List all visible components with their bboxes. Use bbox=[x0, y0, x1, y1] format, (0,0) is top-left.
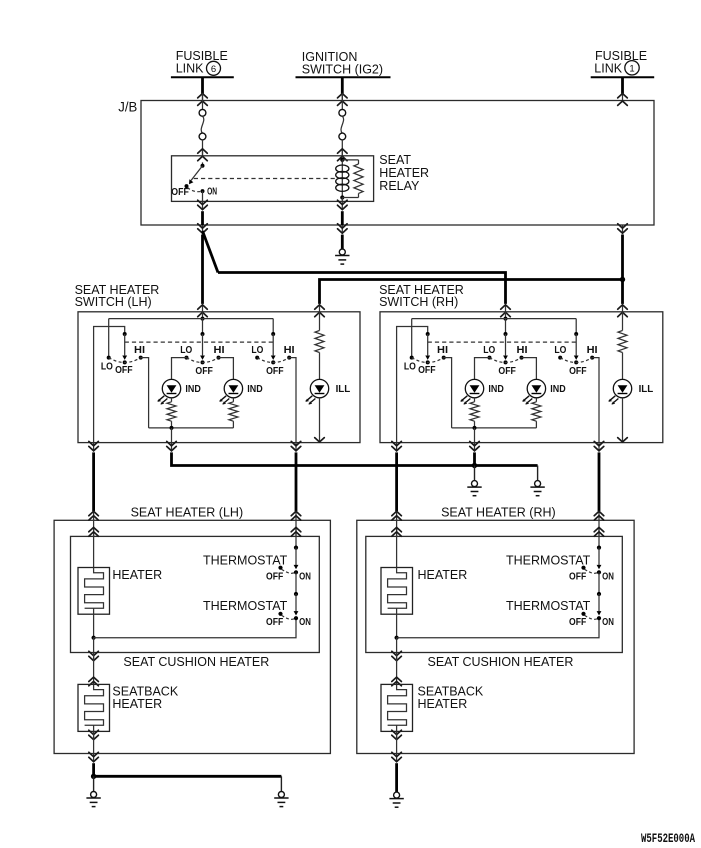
wire feed entry to bus (LH) bbox=[202, 312, 204, 319]
thermostat2 ON contact (RH) bbox=[597, 616, 601, 620]
relay switch wire to pivot bbox=[202, 162, 204, 165]
svg-text:OFF: OFF bbox=[569, 366, 587, 377]
svg-text:SWITCH (IG2): SWITCH (IG2) bbox=[302, 63, 383, 77]
wire junction to ground (left) bbox=[93, 776, 95, 791]
svg-text:HI: HI bbox=[134, 345, 145, 356]
wire junction to ground bbox=[474, 466, 476, 481]
wire ground bus right end down bbox=[280, 776, 282, 791]
svg-text:SEAT: SEAT bbox=[379, 153, 411, 167]
connector at seat heater box top, main (RH) bbox=[396, 511, 398, 521]
ganged switch dashed link (RH) bbox=[428, 341, 577, 343]
svg-text:THERMOSTAT: THERMOSTAT bbox=[203, 599, 288, 613]
switch cell3 OFF contact (LH) bbox=[271, 360, 275, 364]
wire FL1 junction down to switch RH ILL bbox=[621, 280, 624, 304]
ground bus LH bbox=[94, 775, 282, 778]
illumination lamp ILL (RH) bbox=[613, 379, 631, 397]
bus bar under IGNITION SWITCH (IG2) bbox=[296, 76, 391, 78]
switch cell3 travel dashed arc (RH) bbox=[560, 358, 592, 363]
connector at J/B top edge (IG2 wire) bbox=[341, 93, 343, 101]
seat cushion heater inner box (LH) bbox=[71, 536, 320, 652]
wire ground bus right end down bbox=[537, 466, 539, 481]
drop bus to cell2 pivot (LH) bbox=[202, 319, 204, 334]
switch cell1 arm (RH) bbox=[427, 334, 429, 355]
wire thermostat1 to thermostat2 (RH) bbox=[598, 572, 600, 594]
thermostat2 OFF contact (LH) bbox=[278, 612, 282, 616]
thermostat1 arm (LH) bbox=[295, 548, 297, 566]
wire relay output inside J/B bbox=[201, 211, 204, 225]
switch cell3 LO contact (RH) bbox=[558, 356, 562, 360]
connector at box bottom (HI output) (RH) bbox=[598, 443, 600, 452]
feed bus (LH) bbox=[109, 318, 274, 320]
svg-text:OFF: OFF bbox=[171, 187, 189, 198]
svg-text:IND: IND bbox=[247, 384, 262, 395]
wire FL1 from J/B down to ILL junction bbox=[621, 235, 624, 280]
switch cell3 OFF contact (RH) bbox=[574, 360, 578, 364]
switch cell1 output gamma wire (RH) bbox=[397, 327, 428, 443]
svg-text:LINK: LINK bbox=[594, 62, 622, 76]
connector at seat heater box top, HI (LH) bbox=[295, 511, 297, 521]
svg-text:ON: ON bbox=[207, 187, 217, 198]
relay switch pivot bbox=[201, 164, 205, 168]
wire from J/B to relay ground bbox=[341, 235, 344, 249]
wire main into cushion heater (LH) bbox=[93, 520, 95, 536]
connector at J/B bottom edge (relay output) bbox=[202, 225, 204, 234]
svg-text:OFF: OFF bbox=[498, 366, 516, 377]
wire node to thermostat chain (LH) bbox=[94, 618, 296, 638]
svg-text:ON: ON bbox=[602, 617, 614, 628]
svg-text:ILL: ILL bbox=[336, 384, 351, 395]
wire seatback heater to box bottom (RH) bbox=[396, 731, 398, 753]
svg-text:OFF: OFF bbox=[266, 617, 283, 628]
IND bus output node (RH) bbox=[473, 426, 477, 430]
indicator lamp IND2 (LH) bbox=[224, 379, 242, 397]
junction ILL feed / FL1 bbox=[620, 277, 625, 282]
seatback heater rectangle (LH) bbox=[78, 684, 110, 731]
wire from FUSIBLE LINK 6 bus to J/B bbox=[201, 77, 204, 93]
switch cell1 HI contact (RH) bbox=[442, 356, 446, 360]
connector at switch LH box top (main feed) bbox=[202, 305, 204, 313]
connector at relay box bottom edge (output) bbox=[202, 201, 204, 210]
heater element rectangle (RH) bbox=[381, 568, 413, 615]
switch cell2 OFF contact (LH) bbox=[201, 360, 205, 364]
switch cell2 HI contact (LH) bbox=[217, 356, 221, 360]
wire line A to seat heater switch RH bbox=[218, 273, 506, 304]
mechanical link dashed line relay coil to switch arm bbox=[194, 178, 337, 180]
resistor below IND1 (RH) bbox=[470, 402, 479, 421]
wire switch RH IND output to ground bus bbox=[473, 452, 476, 465]
wire IND1 to resistor (RH) bbox=[474, 398, 476, 402]
thermostat1 travel dashed arc (LH) bbox=[282, 569, 295, 573]
wire feed entry to bus (RH) bbox=[505, 312, 507, 319]
harness squiggle on FL6 feed bbox=[201, 116, 204, 133]
connector at seat heater box bottom (LH) bbox=[93, 754, 95, 763]
wire ILL to box bottom (LH) bbox=[319, 398, 321, 442]
svg-text:IND: IND bbox=[185, 384, 200, 395]
connector stub at box bottom (ILL return) (LH) bbox=[315, 438, 325, 442]
svg-text:6: 6 bbox=[211, 64, 216, 75]
switch cell3 HI contact (LH) bbox=[287, 356, 291, 360]
connector at J/B top edge (FL6 wire) bbox=[202, 93, 204, 101]
junction ground LH bbox=[91, 774, 96, 779]
connector at box bottom (HI output) (LH) bbox=[295, 443, 297, 452]
relay switch ON contact bbox=[201, 189, 205, 193]
connector at box bottom (main output) (RH) bbox=[396, 443, 398, 452]
svg-text:OFF: OFF bbox=[569, 617, 586, 628]
svg-text:LO: LO bbox=[404, 361, 416, 372]
wire node down to seatback heater (LH) bbox=[93, 638, 95, 653]
connector circle C1 on FL6 feed bbox=[199, 109, 206, 116]
svg-text:THERMOSTAT: THERMOSTAT bbox=[506, 553, 591, 567]
svg-text:SEAT CUSHION HEATER: SEAT CUSHION HEATER bbox=[123, 655, 269, 669]
thermostat2 ON contact (LH) bbox=[294, 616, 298, 620]
switch cell3 travel dashed arc (LH) bbox=[257, 358, 289, 363]
connector at cushion box top, main (LH) bbox=[93, 527, 95, 537]
wire cell2 HI to IND lamp2 (LH) bbox=[219, 358, 234, 380]
relay switch OFF contact bbox=[185, 184, 189, 188]
connector circle C2 on FL6 feed bbox=[199, 133, 206, 140]
wire cell3 HI to HI output (LH) bbox=[289, 358, 296, 443]
switch cell1 HI contact (LH) bbox=[139, 356, 143, 360]
svg-text:HI: HI bbox=[214, 345, 225, 356]
svg-text:SWITCH (LH): SWITCH (LH) bbox=[75, 295, 152, 309]
wire seat heater RH to ground bbox=[395, 763, 398, 792]
connector at cushion box bottom (RH) bbox=[396, 653, 398, 662]
feed node (RH) bbox=[504, 317, 508, 321]
wire line B ILL feed to both switches bbox=[320, 280, 623, 304]
svg-text:LO: LO bbox=[101, 361, 113, 372]
switch cell2 arm (RH) bbox=[505, 334, 507, 355]
switch cell1 pivot (LH) bbox=[123, 332, 127, 336]
ground (seat heater LH, left) bbox=[91, 792, 97, 798]
switch cell2 pivot (LH) bbox=[201, 332, 205, 336]
svg-text:HEATER: HEATER bbox=[112, 697, 162, 711]
cushion heater bottom node (RH) bbox=[395, 636, 399, 640]
resistor below IND1 (LH) bbox=[167, 402, 176, 421]
svg-text:SEAT HEATER (LH): SEAT HEATER (LH) bbox=[131, 505, 244, 519]
wire IND output to box bottom (LH) bbox=[171, 428, 173, 443]
ground (seat heater switches, right) bbox=[535, 481, 541, 487]
ground (seat heater LH, right) bbox=[278, 792, 284, 798]
connector at box bottom (IND/ground output) (LH) bbox=[171, 443, 173, 452]
bus bar under FUSIBLE LINK 1 bbox=[591, 76, 655, 78]
svg-text:ILL: ILL bbox=[639, 384, 654, 395]
svg-text:HI: HI bbox=[587, 345, 598, 356]
seat heater (RH) box bbox=[357, 520, 634, 753]
svg-text:J/B: J/B bbox=[118, 99, 137, 115]
inline connector above seatback heater (RH) bbox=[392, 677, 402, 681]
switch cell3 arm (RH) bbox=[575, 334, 577, 355]
svg-text:THERMOSTAT: THERMOSTAT bbox=[506, 599, 591, 613]
svg-text:HEATER: HEATER bbox=[112, 568, 162, 582]
relay coil top node bbox=[340, 158, 344, 162]
connector at seat heater box top, main (LH) bbox=[93, 511, 95, 521]
switch cell2 travel dashed arc (LH) bbox=[187, 358, 219, 363]
switch cell2 arm (LH) bbox=[202, 334, 204, 355]
wire IND2 to resistor (RH) bbox=[535, 398, 537, 402]
svg-text:HI: HI bbox=[284, 345, 295, 356]
heater element meander (RH) bbox=[388, 568, 407, 609]
indicator lamp IND2 (RH) bbox=[527, 379, 545, 397]
connector at seat heater box bottom (RH) bbox=[396, 754, 398, 763]
switch cell1 pivot (RH) bbox=[426, 332, 430, 336]
inline connector below seatback heater (LH) bbox=[93, 731, 95, 740]
switch cell1 arm (LH) bbox=[124, 334, 126, 355]
resistor below IND2 (RH) bbox=[532, 402, 541, 421]
seat heater (LH) box bbox=[54, 520, 330, 753]
connector at box bottom (IND/ground output) (RH) bbox=[474, 443, 476, 452]
svg-text:LINK: LINK bbox=[176, 62, 204, 76]
indicator lamp IND1 (RH) bbox=[465, 379, 483, 397]
switch cell1 output gamma wire (LH) bbox=[94, 327, 125, 443]
relay suppression resistor (parallel with coil) bbox=[342, 159, 358, 161]
wire IND output to box bottom (RH) bbox=[474, 428, 476, 443]
wire HI into cushion heater (LH) bbox=[295, 520, 297, 536]
wire relay switch ON to relay box bottom bbox=[202, 191, 204, 201]
connector at J/B top edge (FL1 wire) bbox=[622, 93, 624, 101]
seatback heater meander (RH) bbox=[388, 684, 407, 725]
seat heater switch (RH) box bbox=[380, 312, 663, 443]
svg-text:OFF: OFF bbox=[418, 365, 436, 376]
connector circle C4 on IG2 feed bbox=[339, 133, 346, 140]
connector at switch RH box top (main feed) bbox=[505, 305, 507, 313]
connector at relay box top edge (IG2 wire) bbox=[341, 149, 343, 157]
drop bus to cell1 LO (RH) bbox=[411, 319, 413, 358]
wire node to thermostat chain (RH) bbox=[397, 618, 599, 638]
ground (seat heater RH) bbox=[394, 792, 400, 798]
svg-text:SWITCH (RH): SWITCH (RH) bbox=[379, 295, 458, 309]
relay coil winding bbox=[341, 160, 343, 198]
switch cell1 LO contact (RH) bbox=[410, 356, 414, 360]
svg-text:RELAY: RELAY bbox=[379, 179, 420, 193]
connector at cushion box top, main (RH) bbox=[396, 527, 398, 537]
inline connector above seatback heater (LH) bbox=[89, 677, 99, 681]
wire main into cushion heater (RH) bbox=[396, 520, 398, 536]
switch cell2 OFF contact (RH) bbox=[504, 360, 508, 364]
switch cell1 travel dashed arc (LH) bbox=[109, 358, 141, 363]
IND bus output node (LH) bbox=[170, 426, 174, 430]
connector at J/B bottom edge (coil ground) bbox=[341, 225, 343, 234]
drop bus to cell1 LO (LH) bbox=[108, 319, 110, 358]
switch cell3 pivot (RH) bbox=[574, 332, 578, 336]
wire thermostat1 to thermostat2 (LH) bbox=[295, 572, 297, 594]
wire seat heater LH to ground junction bbox=[92, 763, 95, 776]
ILL dropping resistor (LH) bbox=[319, 312, 321, 331]
svg-text:ON: ON bbox=[602, 571, 614, 582]
connector at J/B bottom edge (FL1 wire) bbox=[622, 225, 624, 234]
svg-text:OFF: OFF bbox=[266, 571, 283, 582]
feed node (LH) bbox=[201, 317, 205, 321]
dashed travel arc OFF-ON (relay) bbox=[188, 188, 203, 192]
seat cushion heater inner box (RH) bbox=[366, 536, 623, 652]
svg-text:HI: HI bbox=[517, 345, 528, 356]
connector at cushion box top, HI (LH) bbox=[295, 527, 297, 537]
svg-text:HEATER: HEATER bbox=[418, 568, 468, 582]
seatback heater meander (LH) bbox=[85, 684, 104, 725]
svg-text:W5F52E000A: W5F52E000A bbox=[641, 831, 695, 846]
resistor below IND2 (LH) bbox=[229, 402, 238, 421]
wire cell1 HI to IND bus (RH) bbox=[444, 358, 452, 428]
thermostat1 top node (LH) bbox=[294, 546, 298, 550]
heater element rectangle (LH) bbox=[78, 568, 110, 615]
thermostat1 OFF contact (RH) bbox=[581, 566, 585, 570]
wire ILL to box bottom (RH) bbox=[622, 398, 624, 442]
svg-text:OFF: OFF bbox=[569, 571, 586, 582]
svg-text:THERMOSTAT: THERMOSTAT bbox=[203, 553, 288, 567]
illumination lamp ILL (LH) bbox=[310, 379, 328, 397]
wire IND ground bus LH-RH bbox=[172, 452, 538, 465]
thermostat2 travel dashed arc (LH) bbox=[282, 615, 295, 619]
junction block J/B box bbox=[141, 101, 654, 226]
drop bus to cell2 pivot (RH) bbox=[505, 319, 507, 334]
switch cell1 travel dashed arc (RH) bbox=[412, 358, 444, 363]
wire node down to seatback heater (RH) bbox=[396, 638, 398, 653]
svg-text:SEAT CUSHION HEATER: SEAT CUSHION HEATER bbox=[428, 655, 574, 669]
ground (seat heater switches, center) bbox=[472, 481, 478, 487]
switch cell2 LO contact (RH) bbox=[488, 356, 492, 360]
wire cell2 LO to IND lamp1 (RH) bbox=[475, 358, 490, 380]
switch cell1 LO contact (LH) bbox=[107, 356, 111, 360]
wire cell1 HI to IND bus (LH) bbox=[141, 358, 149, 428]
wire cell2 LO to IND lamp1 (LH) bbox=[172, 358, 187, 380]
branch diagonal from relay output to line A bbox=[203, 231, 219, 273]
ganged switch dashed link (LH) bbox=[125, 341, 274, 343]
indicator lamp IND1 (LH) bbox=[162, 379, 180, 397]
relay switch arm (to OFF side) bbox=[191, 166, 203, 181]
ground (seat heater relay) bbox=[339, 249, 345, 255]
svg-text:ON: ON bbox=[299, 571, 311, 582]
seat heater relay box bbox=[172, 156, 374, 202]
thermostat2 OFF contact (RH) bbox=[581, 612, 585, 616]
junction IND ground bus bbox=[472, 463, 477, 468]
wire from FUSIBLE LINK 1 bus to J/B bbox=[621, 77, 624, 93]
thermostat1 ON contact (LH) bbox=[294, 570, 298, 574]
harness squiggle on IG2 feed bbox=[341, 116, 344, 133]
connector at switch LH box top (ILL feed) bbox=[319, 305, 321, 313]
switch cell2 travel dashed arc (RH) bbox=[490, 358, 522, 363]
svg-text:LO: LO bbox=[483, 345, 495, 356]
connector circle C3 on IG2 feed bbox=[339, 109, 346, 116]
svg-text:OFF: OFF bbox=[115, 365, 133, 376]
wire heater element to node (RH) bbox=[396, 614, 398, 638]
switch cell1 OFF contact (RH) bbox=[426, 360, 430, 364]
wire IND1 to resistor (LH) bbox=[171, 398, 173, 402]
wire relay coil to relay box bottom bbox=[341, 198, 343, 202]
connector at switch RH box top (ILL feed) bbox=[622, 305, 624, 313]
thermostat1 travel dashed arc (RH) bbox=[585, 569, 598, 573]
thermostat1 top node (RH) bbox=[597, 546, 601, 550]
relay coil bottom node bbox=[340, 195, 344, 199]
svg-text:ON: ON bbox=[299, 617, 311, 628]
svg-text:OFF: OFF bbox=[195, 366, 213, 377]
thermostat2 arm (RH) bbox=[598, 594, 600, 612]
thermostat1 OFF contact (LH) bbox=[278, 566, 282, 570]
thermostat2 arm (LH) bbox=[295, 594, 297, 612]
wire IND2 to resistor (LH) bbox=[232, 398, 234, 402]
seat heater switch (LH) box bbox=[78, 312, 360, 443]
connector at box bottom (main output) (LH) bbox=[93, 443, 95, 452]
cushion heater bottom node (LH) bbox=[92, 636, 96, 640]
wire seatback heater to box bottom (LH) bbox=[93, 731, 95, 753]
wire from IGNITION SWITCH bus to J/B bbox=[341, 77, 344, 93]
svg-text:IGNITION: IGNITION bbox=[302, 50, 358, 64]
svg-text:HEATER: HEATER bbox=[418, 697, 468, 711]
switch cell2 LO contact (LH) bbox=[185, 356, 189, 360]
IND common bus (LH) bbox=[149, 427, 234, 429]
heater element meander (LH) bbox=[85, 568, 104, 609]
switch cell3 pivot (LH) bbox=[271, 332, 275, 336]
connector stub at box bottom (ILL return) (RH) bbox=[618, 438, 628, 442]
wire switch RH HI output to seat heater RH bbox=[598, 452, 601, 511]
switch cell2 HI contact (RH) bbox=[520, 356, 524, 360]
connector at seat heater box top, HI (RH) bbox=[598, 511, 600, 521]
ILL dropping resistor (RH) bbox=[622, 312, 624, 331]
svg-text:1: 1 bbox=[629, 64, 634, 75]
connector at relay box bottom edge (coil ground) bbox=[341, 201, 343, 210]
svg-text:HEATER: HEATER bbox=[379, 166, 429, 180]
thermostat2 top node (LH) bbox=[294, 592, 298, 596]
svg-text:IND: IND bbox=[488, 384, 503, 395]
svg-text:IND: IND bbox=[550, 384, 565, 395]
IND common bus (RH) bbox=[452, 427, 537, 429]
svg-text:LO: LO bbox=[180, 345, 192, 356]
svg-text:HI: HI bbox=[437, 345, 448, 356]
switch cell3 LO contact (LH) bbox=[255, 356, 259, 360]
inline connector below seatback heater (RH) bbox=[396, 731, 398, 740]
drop bus to cell3 pivot (LH) bbox=[272, 319, 274, 334]
wire from C4 to seat heater relay coil bbox=[341, 140, 343, 156]
svg-text:LO: LO bbox=[251, 345, 263, 356]
drop bus to cell3 pivot (RH) bbox=[575, 319, 577, 334]
wire switch RH main output to seat heater RH bbox=[395, 452, 398, 511]
connector at cushion box top, HI (RH) bbox=[598, 527, 600, 537]
wire from C2 to seat heater relay bbox=[202, 140, 204, 156]
thermostat2 travel dashed arc (RH) bbox=[585, 615, 598, 619]
thermostat2 top node (RH) bbox=[597, 592, 601, 596]
switch cell3 HI contact (RH) bbox=[590, 356, 594, 360]
svg-text:OFF: OFF bbox=[266, 366, 284, 377]
switch cell1 OFF contact (LH) bbox=[123, 360, 127, 364]
feed bus (RH) bbox=[412, 318, 577, 320]
wire coil ground inside J/B bbox=[341, 211, 344, 225]
connector at relay box top edge (FL6 wire) bbox=[202, 149, 204, 157]
wire cell2 HI to IND lamp2 (RH) bbox=[522, 358, 537, 380]
connector at cushion box bottom (LH) bbox=[93, 653, 95, 662]
svg-text:SEAT HEATER (RH): SEAT HEATER (RH) bbox=[441, 505, 556, 519]
wire HI into cushion heater (RH) bbox=[598, 520, 600, 536]
switch cell2 pivot (RH) bbox=[504, 332, 508, 336]
svg-text:LO: LO bbox=[554, 345, 566, 356]
seatback heater rectangle (RH) bbox=[381, 684, 413, 731]
wire cell3 HI to HI output (RH) bbox=[592, 358, 599, 443]
wire heater element to node (LH) bbox=[93, 614, 95, 638]
wire relay output down to seat heater switch LH bbox=[201, 235, 204, 304]
thermostat1 ON contact (RH) bbox=[597, 570, 601, 574]
thermostat1 arm (RH) bbox=[598, 548, 600, 566]
wire switch LH main output to seat heater LH bbox=[92, 452, 95, 511]
switch cell3 arm (LH) bbox=[272, 334, 274, 355]
bus bar under FUSIBLE LINK 6 bbox=[171, 76, 234, 78]
wire switch LH HI output to seat heater LH bbox=[295, 452, 298, 511]
